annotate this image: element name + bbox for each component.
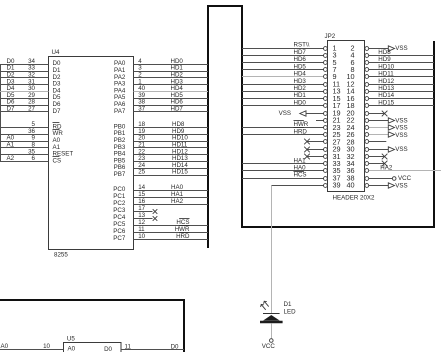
wire D0 from U5 pin 11 to block edge <box>121 349 184 351</box>
wire D1 to U4 pin 33 <box>0 71 49 73</box>
wire HRD to JP2 pin 25 <box>242 134 324 136</box>
wire HD11 from JP2 pin 10 to host bus <box>369 76 434 78</box>
sheet connector top edge <box>207 5 243 7</box>
JP2 pin 39 circle <box>324 184 328 188</box>
wire HD13 from U4 pin 23 <box>134 161 209 163</box>
svg-text:VSS: VSS <box>395 45 407 52</box>
wire HD4 to JP2 pin 9 <box>242 76 324 78</box>
wire A0 to U4 pin 9 <box>0 141 49 143</box>
JP2 pin 9 circle <box>324 75 328 79</box>
JP2 pin 10 circle <box>365 75 369 79</box>
wire HA2 from JP2 pin 36 to sheet edge <box>369 170 441 172</box>
JP2 pin 18 circle <box>365 104 369 108</box>
wire HA1 to JP2 pin 33 <box>242 163 324 165</box>
VSS arrow JP2 pin 26 <box>369 134 389 136</box>
wire D7 to U4 pin 27 <box>0 111 49 113</box>
svg-text:16: 16 <box>138 198 145 205</box>
svg-text:11: 11 <box>138 226 145 233</box>
svg-text:14: 14 <box>138 184 145 191</box>
svg-text:HD7: HD7 <box>294 49 307 56</box>
JP2 pin 25 circle <box>324 133 328 137</box>
svg-text:27: 27 <box>28 106 35 113</box>
wire JP2 pin 39 to LED <box>271 185 323 187</box>
JP2 pin 31 circle <box>324 155 328 159</box>
svg-text:HD15: HD15 <box>172 169 188 176</box>
svg-text:VSS: VSS <box>395 182 407 189</box>
LED D1 cathode bar <box>263 313 280 315</box>
svg-text:RST\\: RST\\ <box>294 42 310 49</box>
svg-text:HWR: HWR <box>294 121 309 128</box>
svg-text:CS: CS <box>53 157 62 164</box>
svg-text:HD1: HD1 <box>294 92 307 99</box>
wire D3 to U4 pin 31 <box>0 84 49 86</box>
svg-text:HD15: HD15 <box>378 99 394 106</box>
svg-text:VCC: VCC <box>398 175 412 182</box>
svg-text:10: 10 <box>138 233 145 240</box>
svg-text:VSS: VSS <box>395 117 407 124</box>
svg-text:HD7: HD7 <box>171 106 184 113</box>
wire HA1 from U4 pin 15 <box>134 197 209 199</box>
svg-text:HD14: HD14 <box>378 92 394 99</box>
svg-text:A0: A0 <box>68 346 76 352</box>
JP2 pin 16 circle <box>365 97 369 101</box>
svg-text:HD12: HD12 <box>378 78 394 85</box>
wire HD9 from JP2 pin 6 to host bus <box>369 62 434 64</box>
wire A1 to U4 pin 8 <box>0 147 49 149</box>
LED D1 triangle <box>263 315 280 321</box>
svg-text:HD5: HD5 <box>294 63 307 70</box>
svg-text:PC7: PC7 <box>113 235 126 242</box>
wire HD12 from U4 pin 22 <box>134 154 209 156</box>
no-connect JP2 pin 29 <box>307 149 324 151</box>
wire LED to VCC <box>271 323 273 338</box>
svg-text:HD13: HD13 <box>378 85 394 92</box>
svg-text:15: 15 <box>138 191 145 198</box>
no-connect JP2 pin 31 <box>307 156 324 158</box>
svg-text:PA7: PA7 <box>114 108 126 115</box>
JP2 pin 11 circle <box>324 83 328 87</box>
JP2 pin 1 circle <box>324 47 328 51</box>
VSS arrow JP2 pin 2 <box>369 48 389 50</box>
JP2 pin 8 circle <box>365 68 369 72</box>
wire D6 to U4 pin 28 <box>0 105 49 107</box>
JP2 pin 12 circle <box>365 83 369 87</box>
no-connect JP2 pin 20 <box>369 113 385 115</box>
JP2 pin 35 circle <box>324 169 328 173</box>
left bus at sheet edge <box>0 64 2 161</box>
wire HD14 from JP2 pin 16 to host bus <box>369 98 434 100</box>
svg-text:D0: D0 <box>104 346 112 352</box>
wire D0 to U4 pin 34 <box>0 64 49 66</box>
svg-text:HD3: HD3 <box>294 78 307 85</box>
svg-text:PC3: PC3 <box>113 207 126 214</box>
svg-text:HD2: HD2 <box>294 85 307 92</box>
VSS arrow JP2 pin 24 <box>369 127 389 129</box>
JP2 pin 19 circle <box>324 112 328 116</box>
JP2 pin 17 circle <box>324 104 328 108</box>
wire HD5 to JP2 pin 7 <box>242 69 324 71</box>
svg-text:HEADER 20X2: HEADER 20X2 <box>333 194 376 201</box>
stub JP2 pin 28 <box>369 141 387 143</box>
svg-text:PC0: PC0 <box>113 186 126 193</box>
JP2 pin 20 circle <box>365 112 369 116</box>
svg-text:HD10: HD10 <box>378 63 394 70</box>
wire HRD from U4 pin 10 <box>134 239 209 241</box>
JP2 pin 7 circle <box>324 68 328 72</box>
svg-text:13: 13 <box>138 212 145 219</box>
no-connect stub U4 pin 17 PC3 <box>134 211 153 213</box>
svg-text:HA1: HA1 <box>171 191 184 198</box>
svg-text:JP2: JP2 <box>325 33 336 40</box>
IC U5 body <box>64 343 122 352</box>
svg-text:6: 6 <box>32 155 36 162</box>
svg-text:PC5: PC5 <box>113 221 126 228</box>
JP2 pin 5 circle <box>324 61 328 65</box>
JP2 pin 13 circle <box>324 90 328 94</box>
svg-text:HWR: HWR <box>175 226 190 233</box>
wire HD13 from JP2 pin 14 to host bus <box>369 91 434 93</box>
power symbol VCC circle <box>270 339 274 343</box>
wire HD3 to JP2 pin 11 <box>242 84 324 86</box>
svg-text:40: 40 <box>346 181 354 190</box>
svg-text:HD0: HD0 <box>294 99 307 106</box>
svg-text:HA1: HA1 <box>294 157 307 164</box>
no-connect JP2 pin 32 <box>369 156 385 158</box>
wire RST\\ to JP2 pin 1 <box>242 48 324 50</box>
wire HCS from U4 pin 12 <box>134 225 209 227</box>
host block right bus <box>433 41 435 228</box>
svg-text:D0: D0 <box>171 343 179 350</box>
JP2 pin 22 circle <box>365 119 369 123</box>
svg-text:HA2: HA2 <box>171 198 184 205</box>
svg-text:PC1: PC1 <box>113 193 126 200</box>
svg-text:VSS: VSS <box>395 132 407 139</box>
wire HCS to JP2 pin 37 <box>242 178 324 180</box>
stub JP2 pin 21 <box>316 120 324 122</box>
svg-text:17: 17 <box>138 205 145 212</box>
svg-text:D7: D7 <box>53 108 61 115</box>
svg-text:HD9: HD9 <box>378 56 391 63</box>
svg-text:HA0: HA0 <box>294 165 307 172</box>
svg-text:VSS: VSS <box>395 125 407 132</box>
JP2 pin 14 circle <box>365 90 369 94</box>
svg-text:11: 11 <box>125 343 132 350</box>
svg-text:8255: 8255 <box>54 251 68 258</box>
wire HD11 from U4 pin 21 <box>134 147 209 149</box>
VCC connection JP2 pin 38 <box>369 178 393 180</box>
wire HD0 to JP2 pin 17 <box>242 105 324 107</box>
svg-text:HD6: HD6 <box>294 56 307 63</box>
JP2 pin 15 circle <box>324 97 328 101</box>
svg-text:HCS: HCS <box>176 219 189 226</box>
wire HD9 from U4 pin 19 <box>134 134 209 136</box>
svg-text:VSS: VSS <box>279 110 291 117</box>
sheet connector right bus / host block left edge <box>241 5 243 228</box>
svg-text:HA2: HA2 <box>380 165 393 172</box>
wire A0 to U5 pin 10 <box>0 349 64 351</box>
wire HD12 from JP2 pin 12 to host bus <box>369 84 434 86</box>
JP2 pin 23 circle <box>324 126 328 130</box>
svg-text:12: 12 <box>138 219 145 226</box>
wire HD2 from U4 pin 2 <box>134 77 209 79</box>
JP2 pin 24 circle <box>365 126 369 130</box>
svg-text:HD8: HD8 <box>378 49 391 56</box>
wire HD5 from U4 pin 39 <box>134 98 209 100</box>
svg-text:PB7: PB7 <box>114 171 126 178</box>
wire HD10 from U4 pin 20 <box>134 141 209 143</box>
JP2 pin 34 circle <box>365 162 369 166</box>
svg-text:D7: D7 <box>7 106 15 113</box>
wire HD2 to JP2 pin 13 <box>242 91 324 93</box>
no-connect stub U4 pin 13 PC4 <box>134 218 153 220</box>
wire HD8 from JP2 pin 4 to host bus <box>369 55 434 57</box>
VSS arrow JP2 pin 30 <box>369 149 389 151</box>
LED D1 emission arrows <box>261 301 269 310</box>
wire HD3 from U4 pin 1 <box>134 84 209 86</box>
svg-text:PC6: PC6 <box>113 228 126 235</box>
svg-text:HRD: HRD <box>176 233 190 240</box>
wire HD7 from U4 pin 37 <box>134 111 209 113</box>
wire WR to U4 pin 36 <box>0 134 49 136</box>
wire RD to U4 pin 5 <box>0 127 49 129</box>
VSS arrow JP2 pin 40 <box>369 185 389 187</box>
JP2 pin 32 circle <box>365 155 369 159</box>
wire HD4 from U4 pin 40 <box>134 91 209 93</box>
svg-text:U5: U5 <box>67 336 75 343</box>
JP2 pin 38 circle <box>365 177 369 181</box>
VSS arrow JP2 pin 19 <box>306 113 323 115</box>
wire HD14 from U4 pin 24 <box>134 168 209 170</box>
no-connect JP2 pin 27 <box>307 141 324 143</box>
wire RESET to U4 pin 35 <box>0 154 49 156</box>
wire D5 to U4 pin 29 <box>0 98 49 100</box>
JP2 pin 26 circle <box>365 133 369 137</box>
svg-text:10: 10 <box>43 343 50 350</box>
JP2 pin 3 circle <box>324 54 328 58</box>
host block bottom edge <box>241 226 435 228</box>
svg-text:HA0: HA0 <box>171 184 184 191</box>
svg-text:HD4: HD4 <box>294 71 307 78</box>
JP2 pin 4 circle <box>365 54 369 58</box>
wire HD6 from U4 pin 38 <box>134 105 209 107</box>
wire HD1 from U4 pin 3 <box>134 71 209 73</box>
wire HD15 from JP2 pin 18 to host bus <box>369 105 434 107</box>
wire JP2 pin 39 down to LED D1 <box>271 186 273 314</box>
wire A2 to U4 pin 6 <box>0 161 49 163</box>
wire HA0 from U4 pin 14 <box>134 190 209 192</box>
wire D4 to U4 pin 30 <box>0 91 49 93</box>
JP2 pin 40 circle <box>365 184 369 188</box>
svg-text:U4: U4 <box>52 49 60 56</box>
svg-text:37: 37 <box>138 106 145 113</box>
JP2 pin 37 circle <box>324 177 328 181</box>
JP2 pin 29 circle <box>324 148 328 152</box>
svg-text:A0: A0 <box>1 343 9 350</box>
JP2 pin 6 circle <box>365 61 369 65</box>
svg-text:39: 39 <box>333 181 341 190</box>
JP2 pin 27 circle <box>324 140 328 144</box>
wire HD0 from U4 pin 4 <box>134 64 209 66</box>
wire HWR to JP2 pin 23 <box>242 127 324 129</box>
wire HD7 to JP2 pin 3 <box>242 55 324 57</box>
svg-text:LED: LED <box>284 309 297 316</box>
wire HD8 from U4 pin 18 <box>134 127 209 129</box>
JP2 pin 36 circle <box>365 169 369 173</box>
JP2 pin 28 circle <box>365 140 369 144</box>
no-connect JP2 pin 34 <box>369 163 385 165</box>
wire HD6 to JP2 pin 5 <box>242 62 324 64</box>
LED D1 anode bar <box>260 321 283 324</box>
JP2 pin 21 circle <box>324 119 328 123</box>
wire HA2 from U4 pin 16 <box>134 204 209 206</box>
svg-text:D1: D1 <box>284 301 292 308</box>
svg-text:A2: A2 <box>7 155 15 162</box>
VSS arrow JP2 pin 22 <box>369 120 389 122</box>
svg-text:HD11: HD11 <box>378 71 394 78</box>
wire HA0 to JP2 pin 35 <box>242 170 324 172</box>
svg-text:VCC: VCC <box>262 343 276 350</box>
wire HD1 to JP2 pin 15 <box>242 98 324 100</box>
svg-text:PC2: PC2 <box>113 200 126 207</box>
sheet connector left bus <box>207 5 209 248</box>
wire HD10 from JP2 pin 8 to host bus <box>369 69 434 71</box>
JP2 pin 30 circle <box>365 148 369 152</box>
svg-text:HRD: HRD <box>294 128 308 135</box>
wire HWR from U4 pin 11 <box>134 232 209 234</box>
bottom-left block right edge <box>183 299 185 352</box>
svg-text:A1: A1 <box>7 142 15 149</box>
wire HD15 from U4 pin 25 <box>134 175 209 177</box>
bottom-left block top edge <box>0 299 185 301</box>
JP2 pin 33 circle <box>324 162 328 166</box>
JP2 pin 2 circle <box>365 47 369 51</box>
svg-text:PC4: PC4 <box>113 214 126 221</box>
wire D2 to U4 pin 32 <box>0 77 49 79</box>
IC U4 8255 body <box>49 57 134 250</box>
svg-text:VSS: VSS <box>395 146 407 153</box>
header JP2 body <box>328 41 365 192</box>
svg-text:HCS: HCS <box>294 172 307 179</box>
svg-text:25: 25 <box>138 169 145 176</box>
